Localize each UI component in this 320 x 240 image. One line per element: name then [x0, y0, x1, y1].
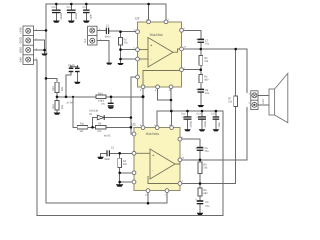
wire U2 feedback chain — [182, 65, 201, 105]
wire R1 bottom lead to ground — [120, 45, 122, 63]
svg-text:100n: 100n — [90, 14, 93, 20]
svg-text:C12: C12 — [83, 6, 88, 9]
wire R14 bottom lead to ground — [56, 110, 58, 113]
svg-text:R11: R11 — [80, 123, 85, 126]
svg-text:2200u: 2200u — [190, 120, 193, 127]
ground C3 — [108, 107, 114, 109]
wire ST-BY horizontal left of R10 — [57, 96, 96, 98]
capacitor C14 2200u lead — [201, 111, 203, 129]
capacitor C11 2200u — [70, 4, 72, 21]
wire MUTE line with D1 / R9 — [73, 77, 138, 134]
svg-text:K1: K1 — [83, 39, 87, 43]
wire D1 anode bend — [93, 118, 98, 128]
capacitor C14 2200u plates — [197, 113, 208, 128]
capacitor C12 100n — [85, 4, 87, 21]
wire -24V net: mid rail, right down rail, outer bottom rail — [34, 60, 223, 216]
junction C3 tap — [110, 96, 113, 99]
wire R7 bottom rail to U1 inverting node — [180, 107, 236, 184]
IC U2 TDA7294 body — [135, 17, 182, 87]
wire U1 bootstrap pin6 to C6 — [180, 139, 200, 147]
junction divider feed — [45, 77, 48, 80]
resistor R4 680 — [199, 75, 209, 83]
wire R13 R14 divider node stub — [56, 93, 58, 101]
wire input network U1 — [101, 153, 135, 184]
wire R2 bottom lead to ground — [119, 168, 121, 185]
wire R2 top lead — [119, 153, 121, 158]
wire C4 bottom jog to ST-BY node — [66, 72, 71, 97]
wire U2 output net to speaker + — [182, 30, 248, 96]
svg-text:22u: 22u — [205, 92, 210, 95]
junction divider output — [56, 96, 59, 99]
junction U2 feedback node — [200, 68, 203, 71]
wire ST-BY line (U2 pin to U1 pin with RC) — [46, 66, 143, 128]
svg-text:R10: R10 — [98, 92, 103, 95]
svg-text:2200u: 2200u — [60, 12, 63, 19]
capacitor C13 2200u plates — [181, 113, 193, 128]
svg-text:LS1: LS1 — [262, 99, 265, 104]
wire node to U2 SVR pin — [121, 58, 138, 60]
junction mute drop lower — [130, 126, 133, 129]
resistor R6 680 — [198, 188, 208, 196]
wire C4 top stub — [70, 66, 72, 68]
wire terminal3 GND — [34, 49, 45, 51]
op-amp triangle U1 — [134, 149, 180, 184]
svg-text:GND: GND — [19, 47, 23, 53]
svg-text:-24V: -24V — [19, 57, 23, 63]
IC U1 TDA7294 body — [132, 122, 180, 190]
capacitor C4 10u mute — [69, 68, 74, 73]
IC pin circles U2 — [136, 20, 184, 89]
resistor R2 22k — [118, 158, 128, 167]
junction C4 tap — [65, 96, 68, 99]
svg-text:R13: R13 — [52, 86, 55, 91]
wire R6 to C9 to ground — [199, 205, 201, 213]
capacitor C8 22u U2 feedback — [196, 88, 210, 94]
junction U1 pin2 node — [118, 172, 121, 175]
ground under C9 — [197, 213, 204, 215]
wire speaker + stub — [258, 94, 269, 96]
wire C5 top stub — [76, 66, 78, 68]
wire speaker stubs — [258, 95, 269, 105]
resistor R11 10k — [77, 123, 87, 133]
junction mute branch — [72, 96, 74, 98]
wire U1 feedback chain / R7 bridge — [180, 107, 236, 213]
svg-text:22u: 22u — [205, 205, 210, 208]
svg-text:C15: C15 — [211, 113, 216, 116]
junction +24V terminal1 — [45, 29, 48, 32]
svg-text:ST-BY: ST-BY — [67, 101, 74, 104]
junction C10 tap — [55, 3, 58, 6]
junction R7 output node — [234, 48, 237, 51]
svg-text:560n: 560n — [105, 35, 111, 38]
capacitor C12 100n plates — [83, 6, 93, 20]
svg-text:TDA7294: TDA7294 — [146, 132, 159, 136]
capacitor C11 2200u plates — [66, 6, 78, 20]
wire -24V mid rail with right drop and outer bottom run — [34, 60, 223, 216]
junction U1 output node — [199, 159, 202, 162]
wire node to U2 pin2 — [121, 49, 138, 51]
junction U2 pin2 node — [119, 48, 122, 51]
wire U2 bootstrap pin6 to C7 — [182, 30, 201, 38]
wire +24V top rail — [46, 3, 166, 5]
capacitor C10 2200u plates — [51, 6, 63, 20]
junction U1 SVR node — [118, 181, 121, 184]
output terminal block K2 — [251, 91, 258, 110]
capacitor C6 22u bootstrap U1 — [195, 147, 209, 153]
ground under C14 — [199, 129, 206, 131]
svg-text:22u: 22u — [205, 150, 210, 153]
wire K1 tip to C1 — [97, 30, 106, 32]
ground under C13 — [184, 129, 191, 131]
wire +24V left riser and bottom run to U1 — [46, 4, 167, 203]
capacitor C5 10u stby — [68, 64, 80, 72]
wire ST-BY horizontal right of R10 — [106, 96, 143, 98]
wire U1 +Vs pin lead right — [166, 191, 168, 204]
wire C1 to U2 pin3 — [109, 30, 138, 33]
capacitor C15 100n plates — [211, 113, 221, 128]
svg-text:560n: 560n — [105, 158, 111, 161]
resistor R1 22k — [119, 37, 129, 45]
capacitor C1 560n — [105, 24, 111, 38]
svg-text:10u: 10u — [101, 102, 106, 105]
junction input node U1 — [118, 152, 121, 155]
wire U1 +Vs pin lead left — [147, 191, 149, 204]
wire R3 leads — [200, 65, 202, 74]
wire U1 output net to speaker - — [180, 108, 247, 163]
IC pin circles U1 — [132, 126, 182, 193]
wire node to U1 pin2 — [120, 172, 134, 174]
ground input K1 — [106, 63, 112, 65]
wire C5 bottom lead to ground — [76, 72, 78, 82]
capacitor C10 2200u — [55, 4, 57, 21]
ground R2 chain — [116, 184, 124, 186]
svg-text:GND: GND — [19, 37, 23, 43]
resistor R5 22k — [198, 162, 208, 174]
ground C5 — [74, 82, 81, 84]
wire U2 -Vs pin 15 lead — [170, 87, 172, 111]
wire U2 -Vs pin 8 lead with jog — [158, 87, 171, 100]
svg-text:U2: U2 — [135, 17, 139, 21]
wire divider feed from +24V riser — [46, 77, 57, 79]
wire ST-BY vertical U2 pin9 to U1 pin9 — [142, 87, 144, 128]
resistor R7 22k — [228, 96, 238, 107]
wire node to U1 SVR pin — [120, 181, 134, 183]
svg-text:22u: 22u — [205, 42, 210, 45]
input terminal block K1 — [88, 26, 97, 45]
wire D1 cathode to mute drop — [104, 117, 131, 119]
wire R13 top lead — [56, 78, 58, 82]
ground C2 — [97, 157, 104, 159]
wire C3 top lead — [110, 97, 112, 103]
ground under C10 — [53, 21, 60, 23]
wire C6 bottom lead — [199, 151, 201, 162]
capacitor C7 22u bootstrap U2 — [196, 39, 210, 46]
resistor R14 10k — [52, 100, 64, 110]
svg-text:100n: 100n — [218, 122, 221, 128]
wire R7 top rail — [235, 49, 237, 96]
capacitor C13 2200u lead — [187, 111, 189, 129]
junction C11 tap — [70, 3, 73, 6]
ground under C15 — [213, 129, 220, 131]
wire R1 top lead — [120, 32, 122, 38]
wire R4 to C8 to ground — [200, 93, 202, 105]
wire C2 left lead — [101, 152, 107, 154]
wire +24V net: top rail, left vertical riser, inner bottom rail to U1 — [34, 4, 168, 203]
capacitor C9 22u U1 feedback — [195, 198, 210, 208]
resistor R10 10k — [96, 92, 106, 102]
speaker LS1 — [269, 73, 288, 122]
junction U1 +Vs bottom tap — [147, 202, 150, 205]
svg-text:TDA7294: TDA7294 — [150, 33, 163, 37]
wire U2 +Vs pin 7 lead — [165, 4, 167, 22]
wire R3 to R4 — [200, 83, 202, 89]
wire U1 output pin14 to speaker - terminal — [180, 108, 247, 160]
junction C14 tap — [201, 110, 204, 113]
ground supply GND terminals — [41, 54, 47, 56]
wire terminal2 GND to drop — [34, 40, 45, 53]
junction U2 SVR node — [119, 58, 122, 61]
wire input network U2 — [97, 31, 138, 64]
wire speaker - stub — [258, 104, 269, 106]
wire C7 bottom lead — [200, 44, 202, 56]
ground under C11 — [68, 21, 75, 23]
svg-text:2200u: 2200u — [75, 12, 78, 19]
wire R9 right lead to mute drop — [106, 126, 131, 128]
diode D1 1N4148 — [89, 110, 104, 120]
junction -24V rail U2 U1 leads — [170, 110, 173, 113]
junction U1 feedback node — [199, 182, 202, 185]
wire U2 mute pin10 jog down to U1 mute pin10 — [131, 77, 138, 134]
wire R11 to D1 node — [88, 126, 96, 128]
wire U2 inverting pin to node — [182, 69, 201, 71]
wire GND terminals 2+3 — [34, 40, 45, 53]
junction input node U2 — [119, 30, 122, 33]
pin number labels — [36, 18, 251, 196]
op-amp triangle U2 — [138, 38, 182, 87]
ground under C12 — [83, 21, 90, 23]
junction C15 tap — [215, 110, 218, 113]
wire terminal1 to riser — [34, 29, 47, 31]
svg-text:MUTE: MUTE — [104, 135, 111, 138]
junction U2 -Vs jog — [170, 99, 173, 102]
junction GND terminals — [43, 49, 46, 52]
junction C12 tap — [85, 3, 88, 6]
capacitor C15 100n lead — [215, 111, 217, 129]
junction D1 anode — [91, 126, 94, 129]
wire U1 -Vs pin 15 lead — [171, 111, 173, 128]
capacitor C2 560n — [105, 146, 115, 160]
wire U2 +Vs pin 13 lead — [148, 4, 150, 22]
wire K1 sleeve to ground — [97, 41, 109, 63]
wire C2 to U1 pin3 — [110, 152, 134, 154]
wire U2 output pin14 to speaker + terminal — [182, 49, 248, 93]
svg-text:680: 680 — [204, 79, 209, 82]
junction ST-BY net at U2 U1 pin line — [142, 95, 145, 98]
resistor R13 22k — [52, 82, 64, 92]
wire R5 leads — [199, 174, 201, 189]
ground under C8 — [198, 105, 205, 107]
supply terminal block K3 — [23, 26, 34, 64]
svg-text:U1: U1 — [132, 122, 136, 126]
junction C7 output node — [200, 48, 203, 51]
resistor R3 22k — [199, 55, 209, 65]
svg-text:2200u: 2200u — [204, 120, 207, 127]
svg-text:680: 680 — [203, 192, 208, 195]
wire R11 left lead up to ST-BY node — [73, 97, 77, 128]
svg-text:+24V: +24V — [19, 27, 23, 34]
wire C2 ground drop — [100, 153, 102, 157]
capacitor C3 10u — [101, 99, 114, 106]
svg-text:R14: R14 — [52, 104, 55, 109]
resistor R9 22k — [96, 123, 106, 133]
junction mute drop upper — [130, 116, 133, 119]
wire R6 top lead — [199, 196, 201, 200]
ground R1 chain — [117, 63, 123, 65]
ground R14 — [54, 113, 61, 115]
junction C13 tap — [186, 110, 189, 113]
junction U2 +Vs lead tap — [147, 3, 150, 6]
